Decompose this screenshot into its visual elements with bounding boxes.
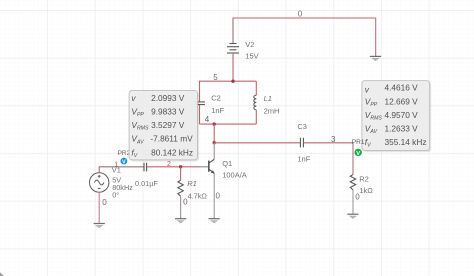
svg-text:15V: 15V bbox=[245, 51, 258, 60]
svg-text:V: V bbox=[122, 160, 126, 166]
svg-text:V2: V2 bbox=[245, 40, 254, 49]
ground (R2) bbox=[347, 213, 358, 215]
svg-text:R1: R1 bbox=[187, 179, 197, 188]
wire R2 to ground bbox=[352, 190, 354, 214]
ground (R1) bbox=[175, 218, 186, 220]
wire tank top (net 5) bbox=[200, 81, 257, 102]
wire base pin Q1 bbox=[200, 166, 209, 168]
svg-text:0.01µF: 0.01µF bbox=[135, 179, 158, 188]
capacitor C1 plates bbox=[144, 163, 147, 172]
wire V1 to C1 bbox=[99, 166, 144, 168]
probe PR1 icon bbox=[355, 149, 362, 157]
svg-text:4: 4 bbox=[205, 115, 210, 124]
svg-text:1.2633 V: 1.2633 V bbox=[385, 124, 419, 134]
junction (V2/tank top) bbox=[231, 80, 234, 83]
svg-text:0°: 0° bbox=[112, 191, 119, 200]
transistor Q1 bbox=[209, 159, 214, 173]
svg-text:1nF: 1nF bbox=[211, 106, 224, 115]
probe box PR2 (left measurement panel) bbox=[129, 91, 199, 162]
canvas corner mark (bottom left) bbox=[0, 272, 4, 276]
svg-text:3: 3 bbox=[331, 135, 336, 144]
svg-text:4.4616 V: 4.4616 V bbox=[385, 83, 419, 93]
svg-text:3.5297 V: 3.5297 V bbox=[151, 120, 185, 130]
svg-text:0: 0 bbox=[216, 191, 221, 200]
svg-text:R2: R2 bbox=[359, 174, 369, 183]
ground (V1) bbox=[94, 223, 105, 225]
svg-text:2mH: 2mH bbox=[264, 107, 280, 116]
dc source V2 bbox=[227, 44, 239, 54]
svg-text:2.0993 V: 2.0993 V bbox=[151, 93, 185, 103]
svg-text:100A/A: 100A/A bbox=[222, 171, 247, 180]
svg-text:PR1: PR1 bbox=[352, 139, 365, 146]
svg-text:1kΩ: 1kΩ bbox=[359, 186, 373, 195]
ac source V1 bbox=[90, 173, 109, 192]
resistor R1 bbox=[178, 180, 183, 196]
wire V1 top pin bbox=[98, 167, 100, 173]
probe box PR1 (right measurement panel) bbox=[362, 81, 431, 153]
capacitor C3 bbox=[300, 138, 303, 148]
resistor R2 bbox=[350, 175, 355, 190]
svg-text:4.9570 V: 4.9570 V bbox=[385, 110, 419, 120]
ground (Q1) bbox=[209, 218, 220, 220]
wire node3 horizontal left of C3 bbox=[214, 142, 300, 144]
svg-text:2: 2 bbox=[167, 161, 171, 168]
wire V2 bottom to tank bbox=[232, 53, 234, 81]
probe PR2 icon bbox=[121, 158, 128, 166]
svg-text:5: 5 bbox=[213, 73, 218, 82]
svg-text:1nF: 1nF bbox=[297, 154, 310, 163]
junction (collector node 3) bbox=[213, 141, 216, 144]
svg-text:C3: C3 bbox=[297, 122, 307, 131]
svg-text:-7.8611 mV: -7.8611 mV bbox=[150, 134, 193, 144]
svg-text:355.14 kHz: 355.14 kHz bbox=[385, 137, 427, 147]
svg-text:0: 0 bbox=[355, 192, 360, 201]
svg-text:V1: V1 bbox=[112, 165, 121, 174]
svg-text:80.142 kHz: 80.142 kHz bbox=[151, 147, 193, 157]
inductor L1 bbox=[255, 81, 257, 95]
wire tank left lower (net 4 to C2) bbox=[199, 105, 201, 125]
wire R1 top bbox=[180, 167, 182, 180]
wire collector pin bbox=[213, 143, 215, 160]
svg-text:4.7kΩ: 4.7kΩ bbox=[188, 191, 208, 200]
emitter arrow bbox=[211, 170, 215, 173]
ground (top right) bbox=[370, 55, 381, 57]
wire R1 to ground bbox=[180, 196, 182, 218]
svg-text:0: 0 bbox=[183, 197, 188, 206]
wire collector drop bbox=[213, 124, 215, 143]
svg-text:0: 0 bbox=[102, 198, 107, 207]
wire C1 to base (net 2) bbox=[147, 166, 200, 168]
wire net 0 top horizontal bbox=[233, 17, 376, 19]
svg-text:C2: C2 bbox=[211, 94, 221, 103]
svg-text:L1: L1 bbox=[264, 94, 272, 103]
wire V1 bottom to ground bbox=[98, 192, 100, 223]
wire V2 top pin bbox=[232, 18, 234, 44]
wire node 3 right of C3 bbox=[304, 142, 353, 144]
capacitor C2 bbox=[195, 102, 205, 105]
wire tank bottom (net 4) bbox=[200, 123, 257, 125]
wire right column to R2 bbox=[352, 143, 354, 175]
svg-text:Q1: Q1 bbox=[222, 159, 232, 168]
junction (tank bottom / collector) bbox=[213, 122, 216, 125]
wire emitter to ground bbox=[213, 173, 215, 218]
svg-text:0: 0 bbox=[298, 9, 303, 18]
svg-text:12.669 V: 12.669 V bbox=[385, 96, 419, 106]
wire net 0 right vertical bbox=[375, 18, 377, 57]
junction (R1 top) bbox=[179, 165, 182, 168]
svg-text:9.9833 V: 9.9833 V bbox=[151, 107, 185, 117]
svg-text:V: V bbox=[356, 151, 360, 157]
